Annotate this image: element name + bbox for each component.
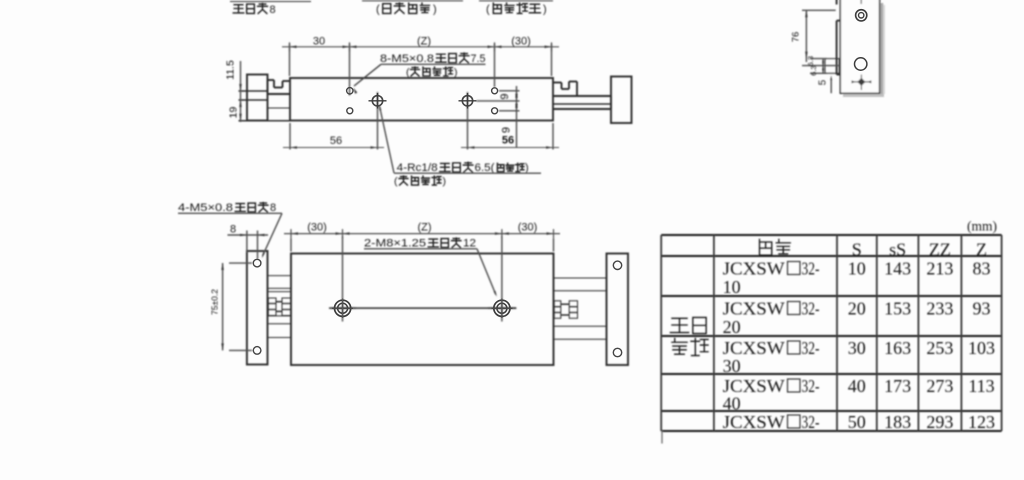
svg-text:6.3: 6.3 [806, 56, 815, 66]
svg-text:32-: 32- [802, 376, 820, 396]
svg-text:8: 8 [270, 202, 276, 214]
svg-text:): ) [443, 176, 447, 188]
svg-text:20: 20 [723, 317, 741, 337]
svg-text:10: 10 [848, 259, 866, 279]
svg-text:): ) [454, 67, 458, 79]
svg-text:JCXSW: JCXSW [723, 259, 785, 279]
svg-text:4-M5×0.8: 4-M5×0.8 [178, 202, 233, 214]
svg-text:12: 12 [463, 238, 476, 250]
svg-text:56: 56 [330, 135, 342, 147]
svg-text:173: 173 [884, 376, 911, 396]
svg-text:(Z): (Z) [417, 222, 431, 234]
svg-text:): ) [543, 4, 547, 16]
svg-text:273: 273 [926, 376, 953, 396]
svg-text:8: 8 [270, 4, 276, 16]
svg-text:32-: 32- [802, 338, 820, 358]
svg-text:6.5(: 6.5( [475, 162, 495, 174]
svg-text:50: 50 [848, 412, 866, 432]
svg-text:32-: 32- [802, 412, 820, 432]
svg-text:10: 10 [723, 277, 741, 297]
svg-text:30: 30 [313, 35, 325, 47]
svg-text:8-M5×0.8: 8-M5×0.8 [380, 53, 434, 65]
svg-text:S: S [852, 240, 862, 260]
svg-text:4-Rc1/8: 4-Rc1/8 [397, 162, 438, 174]
svg-text:8: 8 [230, 224, 236, 236]
svg-text:JCXSW: JCXSW [723, 299, 785, 319]
svg-text:56: 56 [502, 135, 514, 147]
svg-text:ZZ: ZZ [929, 240, 951, 260]
svg-text:213: 213 [926, 259, 953, 279]
svg-text:93: 93 [973, 299, 991, 319]
svg-text:113: 113 [968, 376, 994, 396]
svg-text:(30): (30) [511, 35, 531, 47]
svg-text:40: 40 [848, 376, 866, 396]
svg-text:(30): (30) [518, 222, 538, 234]
svg-text:(: ( [394, 176, 398, 188]
svg-text:233: 233 [926, 299, 953, 319]
svg-text:20: 20 [848, 299, 866, 319]
svg-text:19: 19 [228, 107, 240, 119]
svg-text:30: 30 [848, 338, 866, 358]
svg-text:9: 9 [501, 127, 513, 133]
svg-text:103: 103 [968, 338, 995, 358]
svg-text:JCXSW: JCXSW [723, 338, 785, 358]
svg-text:183: 183 [884, 412, 911, 432]
svg-text:32-: 32- [802, 259, 820, 279]
svg-text:83: 83 [973, 259, 991, 279]
svg-text:6.3: 6.3 [809, 65, 818, 75]
svg-text:11.5: 11.5 [225, 60, 237, 80]
svg-text:(: ( [406, 67, 410, 79]
svg-text:163: 163 [884, 338, 911, 358]
svg-text:30: 30 [723, 356, 741, 376]
svg-text:(mm): (mm) [967, 219, 997, 234]
svg-text:JCXSW: JCXSW [723, 412, 785, 432]
svg-text:75±0.2: 75±0.2 [210, 289, 220, 315]
svg-text:153: 153 [884, 299, 911, 319]
svg-text:(: ( [486, 4, 490, 16]
svg-text:Z: Z [976, 240, 987, 260]
svg-text:): ) [525, 162, 529, 174]
svg-text:40: 40 [723, 394, 741, 414]
svg-text:(30): (30) [307, 222, 327, 234]
svg-text:143: 143 [884, 259, 911, 279]
svg-text:123: 123 [968, 412, 995, 432]
svg-text:293: 293 [926, 412, 953, 432]
svg-text:9: 9 [499, 94, 511, 100]
svg-text:5: 5 [818, 79, 829, 85]
svg-text:253: 253 [926, 338, 953, 358]
svg-text:sS: sS [889, 240, 906, 260]
svg-text:32-: 32- [802, 299, 820, 319]
svg-text:2-M8×1.25: 2-M8×1.25 [364, 238, 426, 250]
svg-text:7.5: 7.5 [471, 53, 486, 65]
svg-text:(Z): (Z) [417, 35, 431, 47]
svg-text:76: 76 [791, 32, 802, 43]
svg-text:): ) [433, 4, 437, 16]
svg-text:(: ( [376, 4, 380, 16]
